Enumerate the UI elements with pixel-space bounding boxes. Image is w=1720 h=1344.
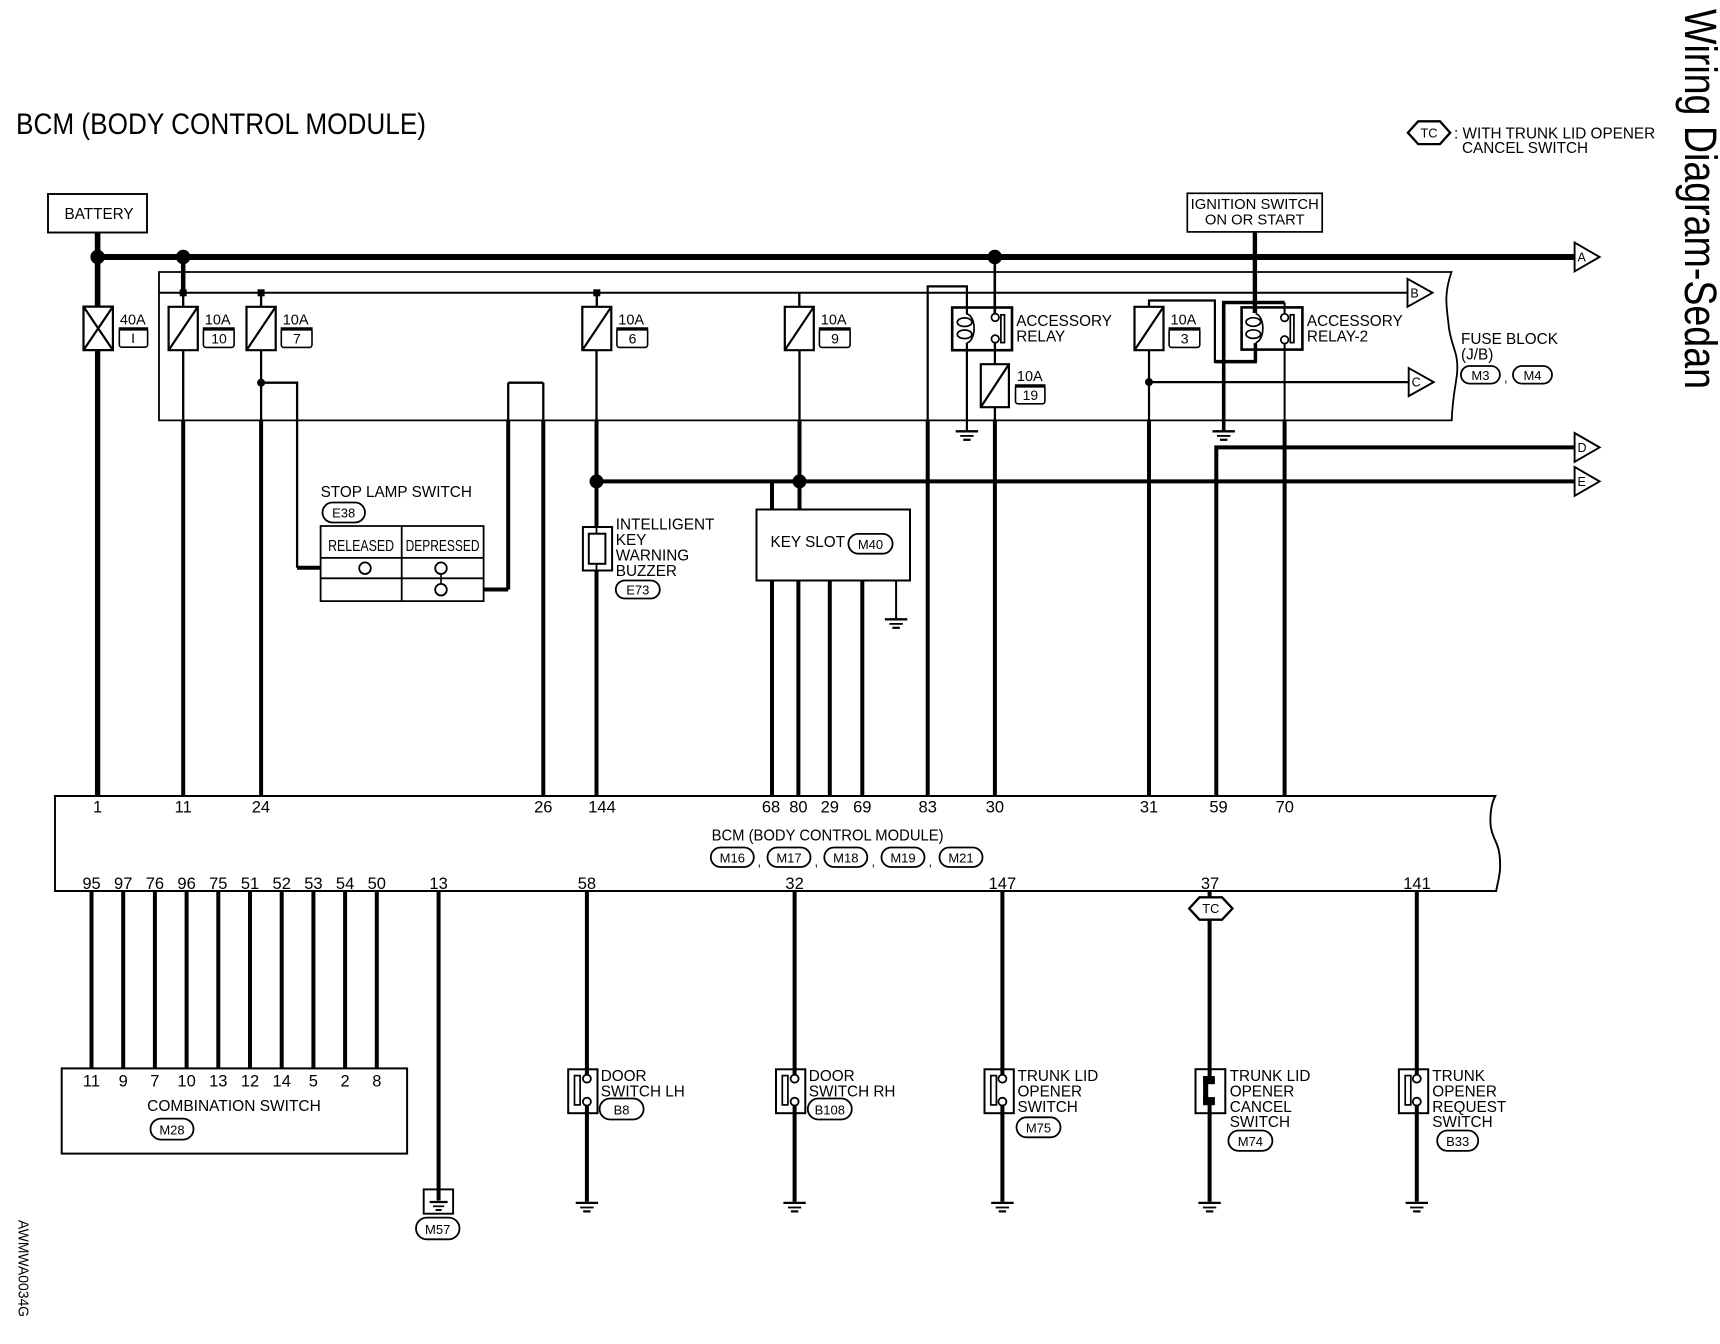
svg-text:M19: M19 [890,850,915,865]
BCM module box [55,796,1500,891]
svg-text:COMBINATION SWITCH: COMBINATION SWITCH [147,1098,321,1115]
connector M28 [151,1119,194,1140]
ground trunk opener request switch [1406,1202,1428,1204]
wire fuse 6 output [595,350,597,420]
wire E line to arrow E [597,479,1575,483]
svg-text:11: 11 [175,798,192,816]
wire pin 13 to body ground M57 [437,891,441,1201]
accessory relay-2 armature bar [1290,315,1294,343]
svg-text:E73: E73 [626,583,649,598]
svg-text:8: 8 [372,1072,381,1090]
svg-text:24: 24 [252,798,270,816]
wire ignition switch to accessory relay-2 coil [1253,232,1257,313]
connector B8 [600,1099,644,1120]
svg-text:70: 70 [1276,798,1294,816]
trunk lid opener switch box [985,1069,1014,1113]
svg-text:13: 13 [209,1072,227,1090]
svg-text:76: 76 [146,875,164,893]
svg-text:RELAY-2: RELAY-2 [1307,328,1368,345]
ground accessory relay coil [956,430,978,432]
svg-text:97: 97 [114,875,132,893]
svg-text:SWITCH: SWITCH [1018,1099,1078,1116]
svg-text:14: 14 [273,1072,291,1090]
svg-text:SWITCH: SWITCH [1432,1114,1492,1131]
fuse 7 10A [247,307,276,350]
connector M21 [940,848,983,868]
svg-text:7: 7 [150,1072,159,1090]
wire pin 58 to door switch LH [585,891,589,1076]
trunk lid opener cancel switch lever [1203,1076,1208,1105]
connector arrow B [1408,279,1433,307]
connector arrow A [1575,243,1600,272]
svg-text:50: 50 [368,875,386,893]
svg-text:C: C [1412,376,1421,390]
svg-text:9: 9 [831,331,839,347]
connector arrow E [1575,467,1600,496]
wire pin 141 to trunk opener request switch [1415,891,1419,1076]
fusible link 40A I [84,307,113,351]
svg-text:69: 69 [853,798,871,816]
svg-text:RELAY: RELAY [1016,328,1065,345]
svg-text:52: 52 [273,875,291,893]
battery box [48,194,147,233]
svg-text:141: 141 [1403,875,1431,893]
svg-text:26: 26 [534,798,552,816]
accessory relay coil [967,314,974,343]
wire bus to inner bus at fuse 10 [181,257,186,293]
fuse 3 10A [1135,307,1164,350]
ground trunk lid opener switch [991,1202,1013,1204]
connector M16 [711,848,754,868]
buzzer element [596,527,598,571]
wire main battery bus A [98,254,1575,260]
svg-text:TC: TC [1420,125,1437,140]
stop lamp switch table [321,526,484,601]
connector M57 [416,1218,460,1240]
svg-text:58: 58 [578,875,596,893]
connector M74 [1228,1131,1272,1151]
svg-text:Wiring Diagram-Sedan: Wiring Diagram-Sedan [1675,9,1720,389]
svg-text:INTELLIGENT: INTELLIGENT [616,517,715,534]
svg-text:3: 3 [1181,331,1189,347]
svg-text:10A: 10A [283,313,309,329]
door switch LH box [568,1069,597,1113]
svg-text:40A: 40A [120,313,146,329]
fuse 9 10A [785,307,814,350]
svg-text:B: B [1410,286,1418,300]
wire pin 147 to trunk lid opener switch [1000,891,1004,1076]
svg-text:6: 6 [629,331,637,347]
wire fusible link output to pin 1 [95,350,100,796]
svg-text:WARNING: WARNING [616,548,689,565]
connector arrow D [1575,433,1600,462]
svg-text:5: 5 [309,1072,318,1090]
ground door switch LH [576,1202,598,1204]
ignition switch box [1187,193,1322,232]
wire accessory relay contact feed from bus [993,257,996,314]
trunk opener request switch box [1399,1069,1428,1113]
svg-text:E38: E38 [332,506,355,521]
svg-text:37: 37 [1201,875,1219,893]
svg-text:32: 32 [785,875,803,893]
wire fuse 10 top [182,293,184,307]
combination switch box [62,1068,407,1153]
connector M75 [1017,1117,1061,1137]
svg-text:96: 96 [177,875,195,893]
wire buzzer output to pin 144 [595,571,599,797]
wire stop lamp switch feed branch [261,383,297,568]
connector M40 [848,534,892,554]
svg-text:1: 1 [93,798,102,816]
svg-text:10: 10 [177,1072,195,1090]
connector B33 [1437,1131,1478,1151]
wire fuse 9 top [798,293,800,307]
svg-text:DEPRESSED: DEPRESSED [406,538,480,555]
svg-text:M18: M18 [833,850,858,865]
ground key slot [885,618,907,620]
svg-text:CANCEL SWITCH: CANCEL SWITCH [1462,140,1588,157]
svg-text:STOP LAMP SWITCH: STOP LAMP SWITCH [321,484,472,501]
wire inner battery bus to arrow B [159,292,1408,294]
connector E73 [616,581,660,599]
wire pin 37 to TC hexagon [1208,891,1212,897]
node bus junction accessory relay feed [988,250,1002,264]
node fuse 3 output junction [1145,378,1153,386]
node inner bus square junction fuse 6 [593,289,600,296]
svg-text:10: 10 [211,331,227,347]
wire fuse 6 top [596,293,598,307]
svg-text:,: , [1504,370,1508,385]
wire accessory relay-2 contact to pin 70 [1284,344,1286,421]
node inner bus square junction fuse 7 [258,289,265,296]
svg-text:M16: M16 [720,850,745,865]
svg-text:M57: M57 [425,1222,450,1237]
svg-text:,: , [815,854,819,869]
svg-text:53: 53 [304,875,322,893]
svg-text:(J/B): (J/B) [1461,346,1493,363]
accessory relay-2 contact circles [1281,314,1289,322]
wire fuse 10 output to pin 11 [182,350,184,420]
wire key slot pin 69 [860,581,864,797]
connector M4 [1513,366,1552,384]
accessory relay armature bar [1001,315,1005,343]
door switch RH box [776,1069,805,1113]
svg-text:19: 19 [1023,387,1039,403]
svg-text:2: 2 [341,1072,350,1090]
svg-text:A: A [1578,251,1587,265]
svg-text:M3: M3 [1471,368,1489,383]
svg-text:83: 83 [919,798,937,816]
svg-text:68: 68 [762,798,780,816]
wire fuse 7 top [260,293,262,307]
wire accessory relay contact to fuse 19 [994,343,996,365]
wires BCM to combination switch [92,891,377,1068]
ground box M57 [424,1189,453,1213]
wire key slot pin 68 [770,581,774,797]
svg-text:10A: 10A [205,313,231,329]
svg-text:ACCESSORY: ACCESSORY [1016,313,1112,330]
wire TC hexagon to trunk lid opener cancel switch [1208,920,1212,1079]
svg-text:,: , [872,854,876,869]
svg-text:M17: M17 [776,850,801,865]
svg-text:29: 29 [821,798,839,816]
accessory relay box [952,308,1012,351]
svg-text:ON OR START: ON OR START [1205,212,1305,228]
svg-text:147: 147 [989,875,1017,893]
svg-text:M21: M21 [948,850,973,865]
svg-text:11: 11 [83,1072,100,1090]
svg-text:BCM (BODY CONTROL MODULE): BCM (BODY CONTROL MODULE) [16,108,426,141]
svg-text:10A: 10A [1017,369,1043,385]
wire accessory relay-2 coil return to fuse 3 [1254,343,1258,362]
TC legend hexagon [1408,121,1450,144]
wire C line [1149,381,1409,383]
svg-text:M40: M40 [858,537,883,552]
svg-text:10A: 10A [1171,313,1197,329]
connector E38 [323,503,366,523]
connector M19 [882,848,925,868]
wire pin 32 to door switch RH [793,891,797,1076]
accessory relay contact circles [991,314,999,322]
wire door switch LH to ground [585,1105,589,1202]
wire trunk lid opener cancel switch to ground [1208,1102,1212,1202]
svg-text:M4: M4 [1523,368,1541,383]
svg-text:13: 13 [429,875,447,893]
intelligent key warning buzzer box [583,527,612,571]
svg-text:SWITCH: SWITCH [1230,1114,1290,1131]
node bus junction fuse block feed [176,250,190,264]
svg-text:I: I [131,330,135,346]
wire fuse 7 output to pin 24 [260,350,262,420]
svg-text:31: 31 [1140,798,1158,816]
svg-text:BATTERY: BATTERY [65,206,134,223]
svg-text:7: 7 [293,331,301,347]
node battery bus junction [90,250,104,264]
svg-text:AWMWA0034G: AWMWA0034G [14,1220,30,1317]
connector B108 [808,1099,852,1120]
connector M18 [824,848,867,868]
fuse block (J/B) outline [159,272,1457,420]
wire fuse 3 output to arrow C and pin 31 [1148,350,1150,420]
svg-text:54: 54 [336,875,354,893]
fuse 19 10A [981,364,1009,407]
svg-text:TC: TC [1202,901,1219,916]
node key slot feed junction [793,474,807,488]
svg-text:9: 9 [119,1072,128,1090]
svg-text:59: 59 [1209,798,1227,816]
svg-text:10A: 10A [618,313,644,329]
wire accessory relay coil to ground [966,343,968,430]
wire key slot ground [895,581,897,619]
svg-text:,: , [929,854,933,869]
svg-text:30: 30 [986,798,1004,816]
connector arrow C [1409,368,1434,396]
wire trunk opener request switch to ground [1415,1105,1419,1202]
svg-text:M28: M28 [159,1122,184,1137]
fuse 10 10A [169,307,198,350]
wire battery to bus and 40A fuse [95,233,101,307]
wire key slot top feed [770,481,774,509]
wire fuse 19 output to pin 30 [994,407,996,420]
ground trunk lid opener cancel switch [1198,1202,1220,1204]
svg-text:RELEASED: RELEASED [328,538,394,555]
svg-text:,: , [758,854,762,869]
wire fuse 9 output [798,350,800,420]
svg-text:D: D [1578,441,1587,455]
svg-text:B108: B108 [815,1102,845,1117]
svg-text:KEY SLOT: KEY SLOT [771,534,846,551]
svg-text:BCM (BODY CONTROL MODULE): BCM (BODY CONTROL MODULE) [712,828,944,845]
svg-text:95: 95 [82,875,100,893]
accessory relay-2 coil [1256,314,1263,343]
node key warning buzzer feed junction [590,474,604,488]
connector M17 [768,848,811,868]
node inner bus square junction fuse 10 [180,289,187,296]
key slot box [757,510,911,581]
svg-text:M74: M74 [1238,1134,1263,1149]
wire stop lamp depressed output n-jog to pin 26 [506,420,510,589]
svg-text:B8: B8 [614,1102,630,1117]
fuse 6 10A [582,307,611,350]
TC hexagon on wire 37 [1189,897,1232,919]
connector M3 [1461,366,1500,384]
node fuse 7 branch junction [257,379,265,387]
svg-text:BUZZER: BUZZER [616,563,677,580]
wire D line pin 59 [1216,447,1574,796]
wire key slot pin 80 [796,581,800,797]
svg-text:B33: B33 [1446,1134,1469,1149]
svg-text:E: E [1578,475,1586,489]
wire key slot pin 29 [828,581,832,797]
svg-text:IGNITION SWITCH: IGNITION SWITCH [1191,197,1319,213]
svg-text:144: 144 [588,798,616,816]
svg-text:ACCESSORY: ACCESSORY [1307,313,1403,330]
svg-text:12: 12 [241,1072,259,1090]
svg-text:51: 51 [241,875,259,893]
stop lamp switch depressed contacts [440,574,442,584]
wire stop lamp switch depressed output [484,588,509,592]
svg-text:75: 75 [209,875,227,893]
svg-text:KEY: KEY [616,532,647,549]
wire door switch RH to ground [793,1105,797,1202]
svg-text:80: 80 [789,798,807,816]
ground door switch RH [783,1202,805,1204]
accessory relay coil feed staple to pin 83 [928,286,967,420]
wire accessory relay-2 ground staple to contact [1224,303,1285,431]
svg-text:10A: 10A [821,313,847,329]
svg-text:M75: M75 [1026,1120,1051,1135]
stop lamp switch released contact [359,562,371,574]
wire trunk lid opener switch to ground [1000,1105,1004,1202]
trunk lid opener cancel switch box [1196,1069,1226,1113]
accessory relay-2 box [1242,307,1303,349]
ground accessory relay-2 [1213,430,1235,432]
